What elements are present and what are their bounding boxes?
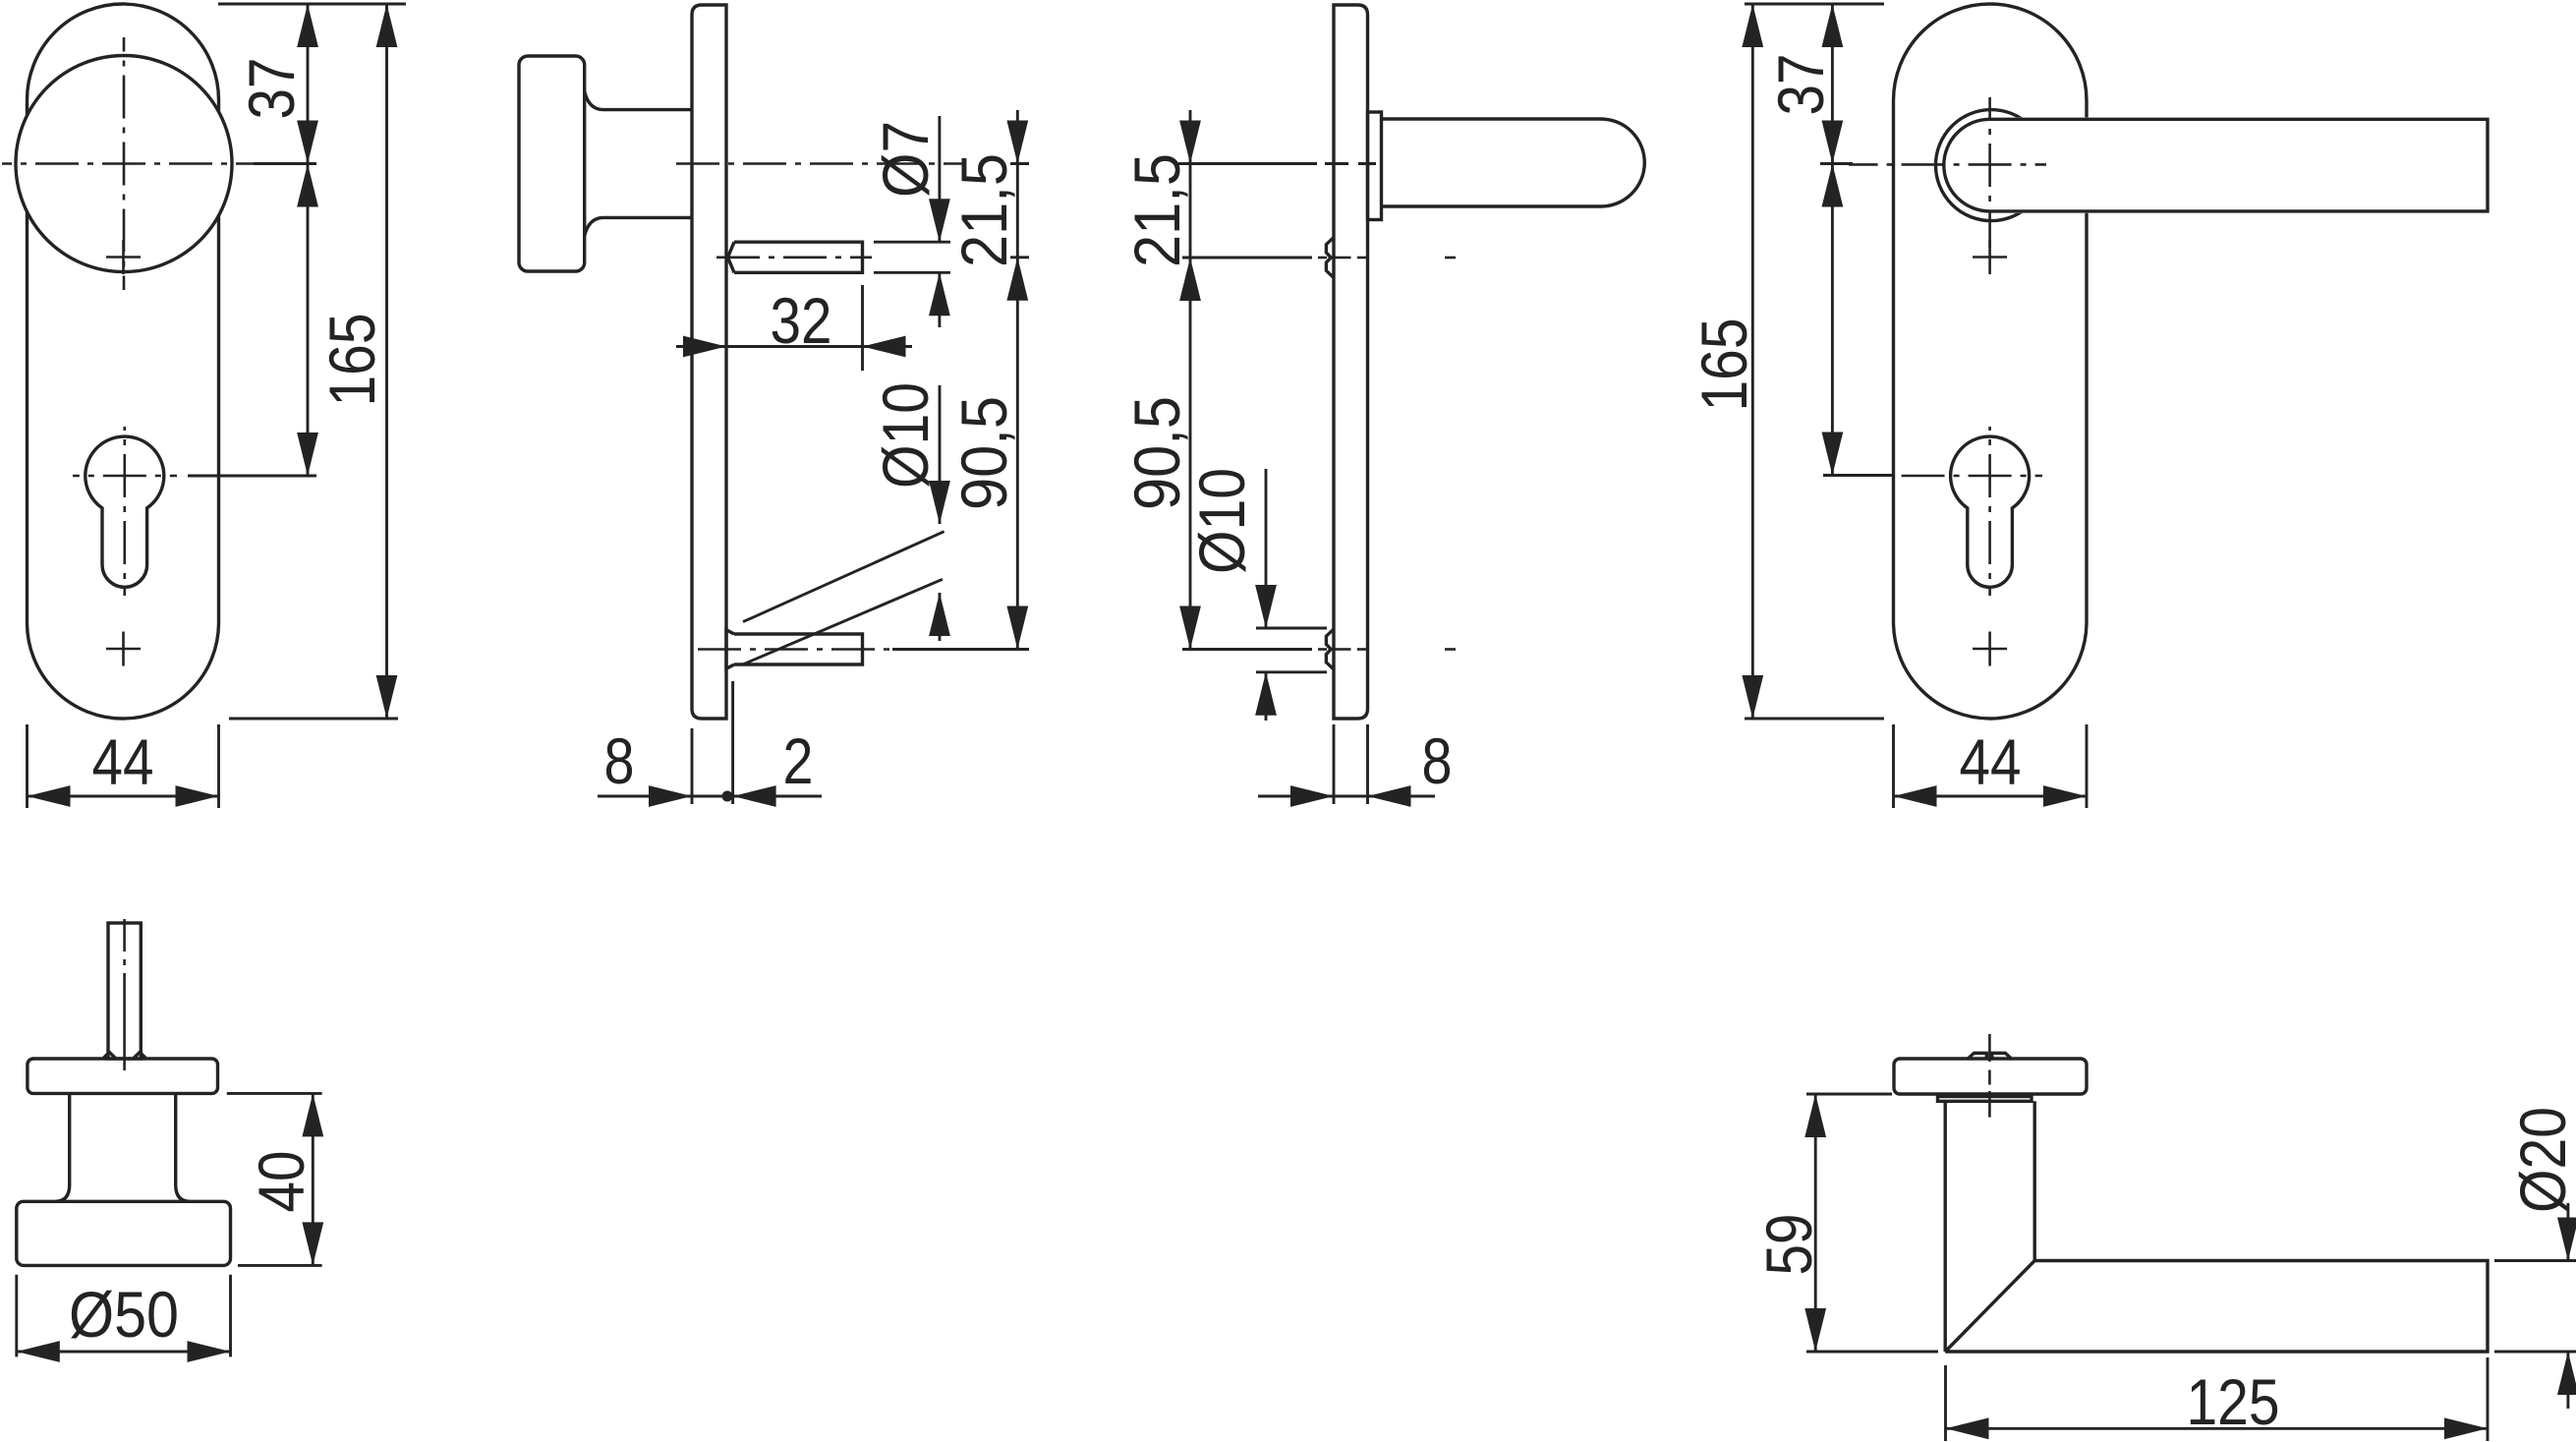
fig1 dimension 72 arrows (unlabelled): [297, 164, 318, 207]
fig3 dimension diameter 10 leader with arrows: [1265, 469, 1268, 628]
svg-text:Ø10: Ø10: [1185, 468, 1258, 574]
fig5 base flange: [28, 1059, 218, 1093]
fig4 lever bar: [1990, 117, 2488, 212]
fig1 dimension 165 line with arrows: [385, 4, 388, 719]
fig2 upper stud center line: [716, 256, 872, 259]
fig5 spindle tip chamfers: [103, 1052, 145, 1058]
fig1 keyhole horizontal center line: [73, 475, 177, 478]
svg-text:Ø20: Ø20: [2506, 1107, 2576, 1213]
fig4 lever collar ring: [1936, 110, 2047, 221]
fig4 bottom extension line: [1745, 718, 1884, 721]
svg-text:44: 44: [1960, 725, 2022, 798]
fig4 extension line lever axis: [1820, 162, 1853, 165]
fig1 euro profile cylinder keyhole: [86, 436, 164, 587]
fig6 grip diameter extension lines: [2494, 1259, 2576, 1262]
fig1 extension from keyhole axis to dimension line: [188, 475, 316, 478]
fig6 dimension 125 line with arrows: [1946, 1427, 2489, 1430]
fig2 upper fixing stud M7: [728, 242, 863, 272]
fig3 lever collar: [1368, 112, 1382, 220]
fig4 keyhole vertical center line: [1988, 427, 1991, 596]
fig6 vertical center line: [1988, 1034, 1991, 1062]
svg-text:59: 59: [1752, 1214, 1825, 1276]
fig1 knob horizontal center line: [2, 162, 295, 165]
fig2 diagonal projection lines of lower bolt: [743, 532, 945, 622]
fig3 upper screw tip on plate face: [1326, 238, 1333, 278]
svg-text:8: 8: [604, 724, 635, 797]
svg-text:165: 165: [1688, 318, 1760, 412]
fig3 diameter 10 extension lines: [1256, 627, 1327, 630]
fig5 dimension diameter 50 line with arrows: [17, 1351, 231, 1354]
fig5 spindle center line: [123, 919, 126, 952]
svg-text:Ø10: Ø10: [869, 382, 942, 489]
fig2 knob axis center line: [676, 162, 963, 165]
fig2 extension line lower bolt axis: [892, 648, 1029, 651]
fig2 extension tick 21,5 bottom: [1010, 256, 1029, 259]
fig1 width extension lines: [26, 724, 29, 808]
fig2 lower fixing bolt with countersunk head: [726, 630, 863, 669]
fig2 dimension 32 line with outside arrows: [676, 345, 912, 348]
fig6 collar: [1938, 1097, 2032, 1102]
fig5 neck flare curves: [55, 1185, 70, 1202]
fig6 lever neck: [1943, 1101, 1946, 1352]
fig1 top extension line: [218, 3, 406, 6]
fig5 knob grip body: [17, 1201, 231, 1265]
svg-text:40: 40: [245, 1151, 317, 1213]
svg-text:90,5: 90,5: [1120, 396, 1193, 510]
fig2 plate thickness extension lines: [691, 728, 694, 804]
fig5 spindle: [108, 923, 141, 1059]
fig4 oval short plate (front view, lever side): [1894, 4, 2088, 719]
svg-text:37: 37: [235, 58, 308, 120]
fig1 oval short plate (front view, knob side): [28, 4, 219, 719]
fig2 dimension 21,5 and 90,5 column: [1016, 110, 1019, 650]
svg-text:37: 37: [1764, 54, 1837, 116]
fig4 dimension 165 line with arrows: [1751, 4, 1754, 719]
fig2 dimension 2 line with arrow: [733, 795, 822, 798]
fig2 knob neck bottom edge: [585, 217, 692, 236]
fig5 dimension 40 line with arrows: [312, 1093, 315, 1265]
fig5 height extension lines: [227, 1092, 322, 1095]
svg-text:21,5: 21,5: [1120, 153, 1193, 267]
svg-text:125: 125: [2187, 1365, 2280, 1438]
fig4 lower fixing cross: [1973, 632, 2007, 666]
fig2 dimension 8 line with arrow and dot: [598, 795, 727, 798]
fig1 upper fixing cross: [106, 240, 141, 274]
fig2 plate (side, 8 thick): [692, 5, 726, 719]
fig4 dimension 44 line with arrows: [1894, 795, 2088, 798]
fig3 lower screw tip on plate face: [1326, 629, 1333, 669]
fig1 knob disc: [16, 56, 232, 272]
fig2 extension lines stud diameter: [874, 241, 950, 244]
svg-text:44: 44: [92, 725, 154, 798]
fig2 knob neck top edge: [585, 91, 692, 110]
fig3 dimension 21,5 and 90,5 column: [1189, 110, 1192, 650]
fig2 extension line knob axis right: [1010, 162, 1029, 165]
fig1 bottom extension line: [229, 718, 398, 721]
fig3 dimension 8 line with outside arrows: [1258, 795, 1435, 798]
svg-text:90,5: 90,5: [947, 396, 1020, 510]
fig1 dimension 44 line with arrows: [28, 795, 219, 798]
fig2 lower bolt center line: [698, 648, 892, 651]
svg-text:32: 32: [771, 284, 832, 357]
fig3 upper screw extension line: [1182, 257, 1312, 260]
fig2 knob body (side): [519, 56, 585, 271]
fig5 knob neck: [68, 1093, 71, 1184]
fig4 euro profile cylinder keyhole: [1951, 436, 2030, 587]
fig6 spindle screw head: [1968, 1053, 2013, 1059]
fig4 extension line cylinder axis: [1823, 474, 1892, 477]
fig1 dimension 37 line with arrows: [307, 4, 310, 476]
fig3 plate (side, 8 thick): [1334, 5, 1368, 719]
fig6 lever grip: [1945, 1261, 2488, 1353]
fig6 dimension 59 line with arrows: [1814, 1094, 1817, 1352]
fig1 extension from knob axis to dimension line: [254, 162, 316, 165]
fig6 dimension diameter 20 arrows: [2566, 1203, 2569, 1261]
fig5 diameter extension lines: [15, 1275, 18, 1357]
fig3 plate thickness extension lines: [1333, 724, 1336, 804]
fig4 keyhole horizontal center line: [1897, 475, 2042, 478]
fig4 lever vertical center line: [1988, 97, 1991, 248]
fig4 lever axis center line: [1849, 163, 2046, 166]
fig4 top extension line: [1745, 3, 1884, 6]
fig3 lower screw extension line: [1182, 648, 1312, 651]
fig4 dimension 37 line with arrows: [1831, 4, 1834, 476]
svg-text:Ø7: Ø7: [869, 121, 942, 198]
fig1 keyhole vertical center line: [124, 427, 127, 596]
svg-text:165: 165: [315, 314, 388, 407]
fig1 lower fixing cross: [106, 632, 141, 666]
fig6 rose flange: [1894, 1059, 2087, 1094]
fig2 extension line 32 end: [861, 285, 864, 371]
fig6 mitre joint line: [1945, 1261, 2034, 1353]
fig4 dimension 72 arrows (unlabelled): [1822, 164, 1844, 207]
fig4 upper fixing cross: [1973, 240, 2007, 274]
fig2 dimension diameter 7 leader with arrows: [938, 116, 941, 242]
fig4 lever grip end cap arc: [1944, 119, 2036, 211]
svg-text:8: 8: [1422, 724, 1453, 797]
svg-text:21,5: 21,5: [947, 153, 1020, 267]
svg-text:2: 2: [783, 724, 814, 797]
fig6 length extension lines: [1944, 1365, 1947, 1441]
fig1 knob vertical center line: [123, 37, 126, 290]
fig2 dimension diameter 10 leader with arrows: [939, 385, 942, 524]
svg-text:Ø50: Ø50: [69, 1278, 179, 1351]
fig6 height extension lines: [1806, 1093, 1892, 1096]
fig3 lever grip (capsule): [1382, 119, 1645, 206]
fig4 width extension lines: [1892, 724, 1895, 808]
fig3 grip axis center line: [1178, 162, 1317, 165]
